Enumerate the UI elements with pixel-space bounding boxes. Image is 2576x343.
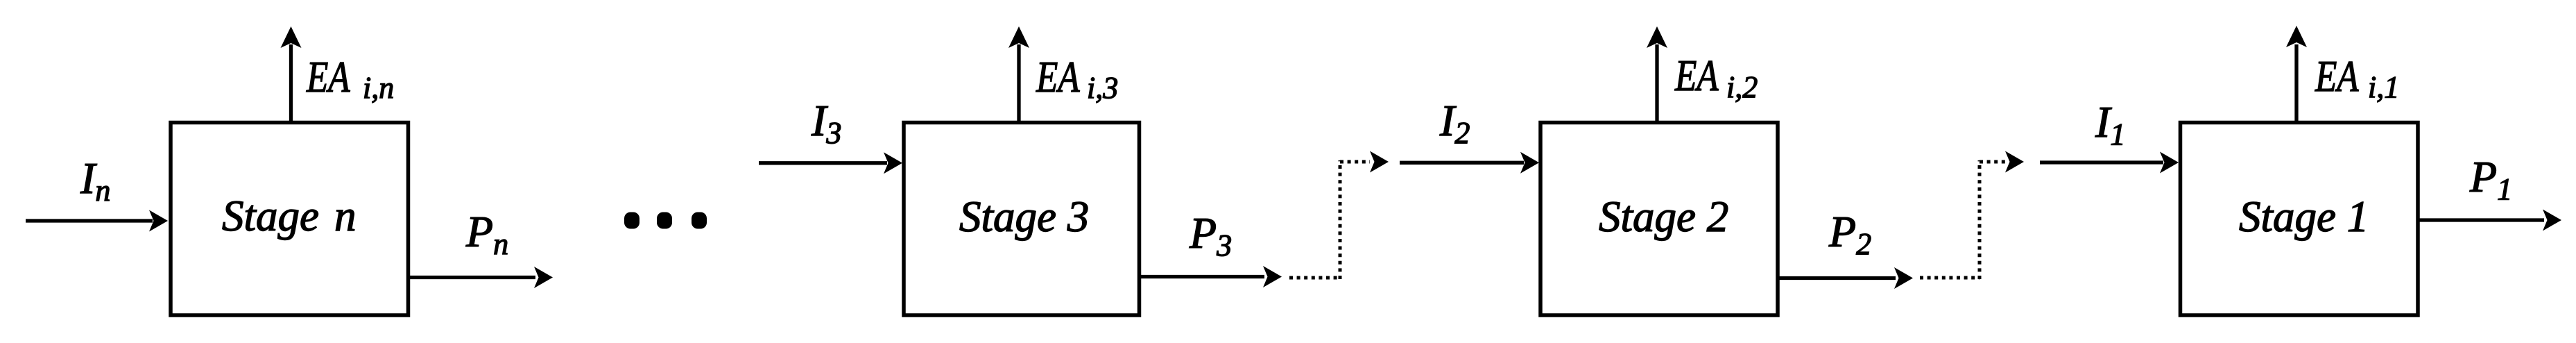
wire dotted step P3 to I2	[1289, 160, 1370, 279]
wire EA i,1 vertical arrow	[2286, 26, 2307, 123]
wire I3 input arrow	[759, 152, 902, 174]
wire P3 output arrow	[1140, 266, 1282, 287]
wire dotted step P2 to I1	[1920, 160, 2006, 279]
svg-text:i,1: i,1	[2368, 70, 2399, 104]
arrowhead dotted step 1	[1370, 151, 1389, 173]
svg-text:Stage 3: Stage 3	[959, 192, 1089, 241]
wire I1 input arrow	[2040, 152, 2179, 174]
svg-text:EA: EA	[1036, 52, 1080, 102]
ellipsis dots	[624, 212, 707, 229]
svg-text:i,n: i,n	[363, 71, 394, 105]
svg-text:Stage 1: Stage 1	[2239, 192, 2369, 241]
svg-text:EA: EA	[306, 52, 350, 102]
svg-text:EA: EA	[1674, 51, 1719, 101]
wire EA i,3 vertical arrow	[1008, 26, 1029, 123]
wire P2 output arrow	[1778, 267, 1913, 289]
wire EA i,n vertical arrow	[281, 26, 302, 123]
stage block Stage 1	[2181, 123, 2419, 316]
svg-text:i,3: i,3	[1087, 71, 1118, 105]
wire P1 output arrow	[2418, 210, 2561, 231]
wire In input arrow	[26, 210, 168, 232]
svg-text:i,2: i,2	[1726, 70, 1758, 104]
wire I2 input arrow	[1400, 152, 1539, 174]
svg-text:Stage 2: Stage 2	[1599, 192, 1728, 241]
svg-text:EA: EA	[2315, 51, 2359, 101]
wire EA i,2 vertical arrow	[1647, 26, 1667, 123]
stage block Stage 2	[1540, 123, 1778, 316]
wire Pn output arrow	[409, 267, 553, 288]
stage block Stage 3	[904, 123, 1140, 316]
arrowhead dotted step 2	[2005, 151, 2024, 173]
svg-text:Stagen: Stagen	[222, 192, 356, 240]
stage block Stage n	[171, 123, 409, 316]
